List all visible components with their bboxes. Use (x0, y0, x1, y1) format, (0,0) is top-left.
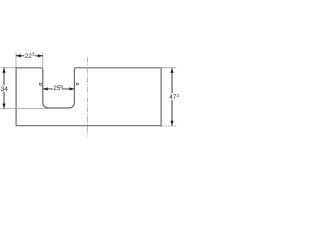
arrow right of dimension 25-8 (70, 87, 75, 90)
text background 25-8 (53, 85, 62, 92)
arrow top of dimension 47-3 (170, 68, 173, 73)
centerline (87, 57, 89, 137)
svg-text:34: 34 (1, 86, 9, 93)
text background 22-3 (24, 52, 34, 58)
countertop outline with U-shaped cutout (16, 68, 161, 126)
text background 47-3 (168, 93, 180, 99)
dimension line 47-3 vertical (x=172) (171, 68, 173, 126)
arrow bottom of dimension 34 (2, 104, 5, 109)
dimension line 34 vertical (x=4) (3, 68, 5, 109)
arrow right of dimension 22-3 (38, 54, 43, 57)
marker circle right of cutout (76, 83, 78, 85)
extension line right horizontal bottom dashed (y=126.1) (162, 125, 177, 127)
extension line right horizontal top (y=67.7) (162, 67, 177, 69)
arrow bottom of dimension 47-3 (170, 121, 173, 126)
extension line left horizontal top (y=67.7) (1, 67, 16, 69)
text background 34 (0, 85, 9, 91)
arrow top of dimension 34 (2, 68, 5, 73)
extension line top-left vertical (x=16) (15, 53, 17, 68)
extension line left horizontal cutout-bottom (y=108.6) (1, 108, 49, 110)
dimension line 25-8 horizontal (y=88.9) (43, 88, 75, 90)
extension line cutout-left vertical (x=42.8) (42, 53, 44, 68)
marker circle left of cutout (39, 83, 41, 85)
dimension line 22-3 horizontal (y=55.8) (16, 55, 43, 57)
arrow left of dimension 25-8 (43, 87, 48, 90)
arrow left of dimension 22-3 (16, 54, 21, 57)
